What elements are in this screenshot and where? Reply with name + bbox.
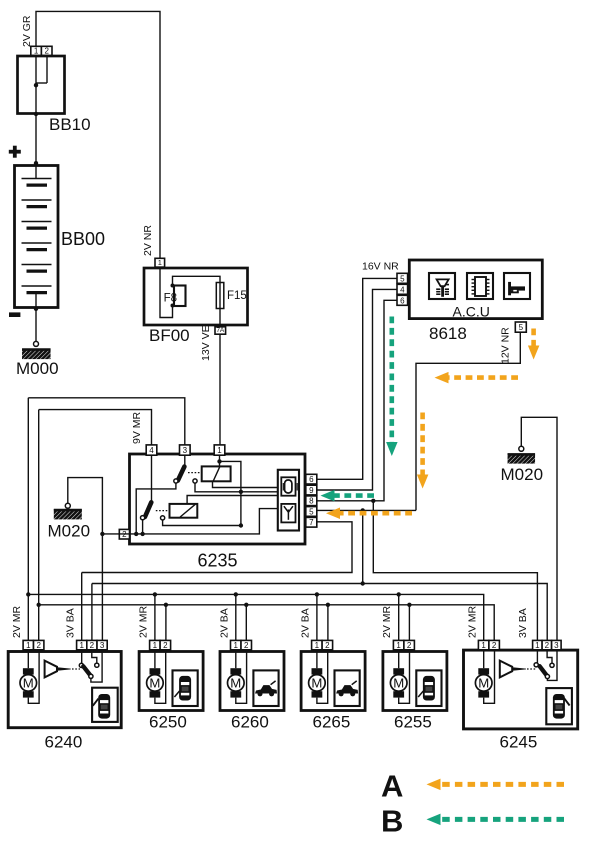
svg-text:A: A bbox=[381, 769, 403, 804]
svg-text:3: 3 bbox=[554, 641, 559, 650]
svg-text:2: 2 bbox=[407, 641, 412, 650]
svg-text:8: 8 bbox=[309, 497, 314, 506]
svg-text:7: 7 bbox=[309, 518, 314, 527]
svg-text:2V MR: 2V MR bbox=[137, 605, 149, 638]
svg-text:3: 3 bbox=[183, 446, 188, 455]
svg-text:3V BA: 3V BA bbox=[517, 608, 529, 638]
svg-text:M020: M020 bbox=[48, 522, 91, 541]
svg-text:5: 5 bbox=[400, 274, 405, 283]
svg-text:1: 1 bbox=[34, 47, 39, 56]
svg-text:M: M bbox=[23, 676, 34, 691]
svg-text:B: B bbox=[381, 804, 403, 839]
svg-text:16V NR: 16V NR bbox=[362, 261, 399, 273]
svg-text:2: 2 bbox=[492, 641, 497, 650]
svg-text:M: M bbox=[393, 676, 404, 691]
svg-text:6260: 6260 bbox=[231, 713, 269, 732]
svg-text:1: 1 bbox=[26, 641, 31, 650]
svg-text:4: 4 bbox=[149, 446, 154, 455]
svg-text:2: 2 bbox=[163, 641, 168, 650]
svg-text:5: 5 bbox=[309, 507, 314, 516]
svg-text:2: 2 bbox=[244, 641, 249, 650]
svg-text:2: 2 bbox=[44, 47, 49, 56]
svg-text:2V MR: 2V MR bbox=[467, 605, 479, 638]
svg-text:M020: M020 bbox=[501, 465, 544, 484]
svg-text:M000: M000 bbox=[16, 359, 59, 378]
svg-text:6250: 6250 bbox=[149, 713, 187, 732]
svg-text:6240: 6240 bbox=[45, 733, 83, 752]
svg-text:2: 2 bbox=[325, 641, 330, 650]
svg-text:6235: 6235 bbox=[198, 551, 238, 571]
svg-text:2V MR: 2V MR bbox=[11, 605, 23, 638]
svg-text:BF00: BF00 bbox=[149, 326, 190, 345]
svg-text:1: 1 bbox=[396, 641, 401, 650]
svg-text:1: 1 bbox=[234, 641, 239, 650]
svg-text:6: 6 bbox=[400, 296, 405, 305]
svg-text:6265: 6265 bbox=[313, 713, 351, 732]
svg-text:BB00: BB00 bbox=[61, 229, 105, 249]
svg-text:1: 1 bbox=[535, 641, 540, 650]
svg-text:2V NR: 2V NR bbox=[142, 225, 154, 256]
svg-text:2: 2 bbox=[90, 641, 95, 650]
svg-text:6: 6 bbox=[309, 475, 314, 484]
svg-text:1: 1 bbox=[315, 641, 320, 650]
svg-text:3: 3 bbox=[100, 641, 105, 650]
svg-text:BB10: BB10 bbox=[49, 115, 91, 134]
svg-text:12V NR: 12V NR bbox=[500, 327, 512, 364]
svg-text:1: 1 bbox=[79, 641, 84, 650]
svg-text:6245: 6245 bbox=[500, 733, 538, 752]
svg-text:2V BA: 2V BA bbox=[218, 608, 230, 638]
svg-text:13V VE: 13V VE bbox=[200, 325, 212, 361]
svg-text:9: 9 bbox=[309, 486, 314, 495]
svg-text:F15: F15 bbox=[227, 290, 247, 302]
svg-text:6255: 6255 bbox=[394, 713, 432, 732]
svg-text:2: 2 bbox=[36, 641, 41, 650]
svg-text:1: 1 bbox=[481, 641, 486, 650]
svg-text:4: 4 bbox=[400, 285, 405, 294]
svg-text:1: 1 bbox=[153, 641, 158, 650]
svg-text:M: M bbox=[478, 676, 489, 691]
svg-text:M: M bbox=[230, 676, 241, 691]
svg-text:A.C.U: A.C.U bbox=[453, 304, 490, 320]
svg-text:3V BA: 3V BA bbox=[65, 608, 77, 638]
svg-text:2V MR: 2V MR bbox=[381, 605, 393, 638]
svg-text:M: M bbox=[311, 676, 322, 691]
svg-text:1: 1 bbox=[217, 446, 222, 455]
svg-text:8618: 8618 bbox=[429, 324, 467, 343]
svg-text:5: 5 bbox=[519, 323, 524, 332]
svg-text:F8: F8 bbox=[164, 293, 177, 305]
svg-text:2: 2 bbox=[545, 641, 550, 650]
svg-text:9V MR: 9V MR bbox=[131, 411, 143, 444]
svg-text:7A: 7A bbox=[216, 327, 225, 334]
svg-text:M: M bbox=[149, 676, 160, 691]
svg-text:1: 1 bbox=[158, 258, 162, 267]
svg-text:2V BA: 2V BA bbox=[299, 608, 311, 638]
svg-text:2V GR: 2V GR bbox=[21, 15, 33, 47]
